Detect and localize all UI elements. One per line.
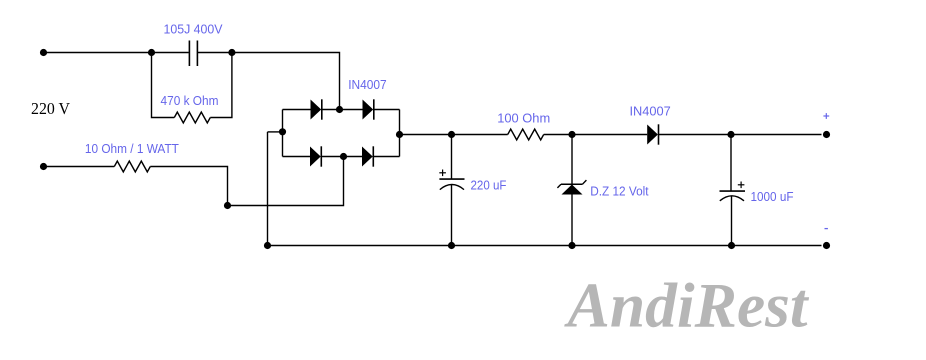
wire bridge right vertical xyxy=(399,110,401,157)
node junction C2 bottom xyxy=(448,242,455,249)
svg-text:105J 400V: 105J 400V xyxy=(164,22,223,37)
node bridge top (AC in) xyxy=(336,106,343,113)
node bottom AC input terminal xyxy=(40,163,47,170)
wire main positive rail left part xyxy=(400,134,508,136)
wire lower AC run to bridge bottom node xyxy=(228,157,344,206)
svg-text:IN4007: IN4007 xyxy=(630,104,671,119)
node corner junction of lower AC wire xyxy=(224,202,231,209)
wire left leg of R1 loop xyxy=(152,53,175,118)
wire bridge top-left segment xyxy=(283,109,311,111)
svg-text:1000 uF: 1000 uF xyxy=(751,189,794,204)
node bridge right (positive out) xyxy=(396,131,403,138)
wire long vertical to bottom rail xyxy=(267,132,269,246)
node output + terminal xyxy=(823,131,830,138)
wire C1 right plate to bridge top corner xyxy=(198,53,340,107)
node junction right of C1 xyxy=(228,49,235,56)
diode D1 IN4007 bridge top-left xyxy=(311,99,322,119)
label + output xyxy=(823,113,829,119)
wire zener branch vertical xyxy=(571,135,573,246)
wire bridge bottom middle segment xyxy=(321,156,362,158)
wire bridge top middle segment xyxy=(322,109,363,111)
wire stub bridge left node to down-rail xyxy=(268,131,283,133)
node junction zener bottom xyxy=(568,242,575,249)
node bridge left (negative) xyxy=(279,128,286,135)
node top AC input terminal xyxy=(40,49,47,56)
node junction C3 bottom xyxy=(728,242,735,249)
svg-text:10 Ohm / 1 WATT: 10 Ohm / 1 WATT xyxy=(85,141,179,156)
zener diode DZ 12V xyxy=(557,180,586,194)
wire rail R3 to D5 xyxy=(544,134,648,136)
diode D5 IN4007 series xyxy=(647,124,658,144)
node junction left of C1 xyxy=(148,49,155,56)
resistor R2 10 Ohm / 1 WATT xyxy=(114,161,150,172)
diode D3 IN4007 bridge bottom-left xyxy=(310,146,321,166)
wire bridge bottom-left segment xyxy=(283,156,311,158)
svg-text:220 uF: 220 uF xyxy=(471,178,507,193)
wire R2 to corner junction xyxy=(150,167,227,206)
resistor R1 470 k Ohm xyxy=(174,112,210,123)
wire bridge left vertical xyxy=(282,110,284,157)
node output - terminal xyxy=(823,242,830,249)
capacitor C1 105J 400V xyxy=(189,41,197,67)
svg-text:D.Z 12 Volt: D.Z 12 Volt xyxy=(590,183,649,198)
wire rail D5 to + terminal xyxy=(658,134,821,136)
wire bottom negative rail xyxy=(268,245,822,247)
wire right leg of R1 loop xyxy=(210,53,232,118)
svg-text:100 Ohm: 100 Ohm xyxy=(497,111,550,126)
node junction zener top xyxy=(568,131,575,138)
node junction C2 top xyxy=(448,131,455,138)
svg-text:220 V: 220 V xyxy=(31,99,71,118)
diode D4 IN4007 bridge bottom-right xyxy=(362,146,373,166)
resistor R3 100 Ohm xyxy=(508,129,544,140)
capacitor C3 1000 uF xyxy=(720,135,746,246)
node junction down-rail bottom xyxy=(264,242,271,249)
svg-text:AndiRest: AndiRest xyxy=(564,270,810,341)
wire bottom input to R2 xyxy=(44,166,115,168)
svg-text:IN4007: IN4007 xyxy=(348,77,387,92)
label - output xyxy=(825,228,828,230)
diode D2 IN4007 bridge top-right xyxy=(363,99,374,119)
wire top input to capacitor left plate xyxy=(44,52,189,54)
capacitor C2 220 uF xyxy=(439,135,464,246)
wire bridge bottom-right segment xyxy=(373,156,400,158)
node junction C3 top xyxy=(727,131,734,138)
svg-text:470 k Ohm: 470 k Ohm xyxy=(161,93,219,108)
node bridge bottom (AC in) xyxy=(340,153,347,160)
wire bridge top-right segment xyxy=(374,109,400,111)
